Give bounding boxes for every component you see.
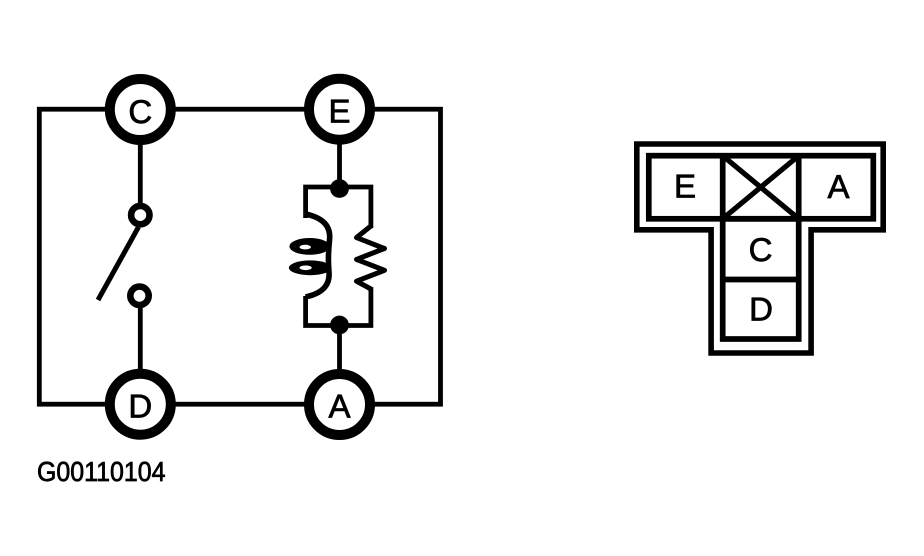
terminal E xyxy=(309,79,370,140)
connector outline (outer T shape, double border) xyxy=(637,144,883,353)
node junction dot top (E branch) xyxy=(330,179,349,198)
svg-text:A: A xyxy=(827,168,849,205)
coil L (relay winding, left branch) xyxy=(289,214,332,297)
pin cell divider (C|D) xyxy=(723,277,799,283)
switch contact circle bottom xyxy=(130,287,148,305)
node junction dot bottom (A branch) xyxy=(330,316,349,335)
svg-text:D: D xyxy=(749,291,773,328)
svg-text:C: C xyxy=(749,231,773,268)
switch contact circle top xyxy=(131,206,149,224)
svg-text:C: C xyxy=(128,93,152,130)
wire from bottom node junction down to terminal A xyxy=(337,325,342,373)
switch blade (open) xyxy=(98,227,139,300)
pin cell divider right (X|A) xyxy=(796,156,802,219)
pin row frame (E / X / A cells) xyxy=(649,156,874,219)
wire from switch down to terminal D xyxy=(138,308,143,373)
wire from terminal C down to switch xyxy=(138,140,143,204)
pin column frame (C / D cells) xyxy=(723,219,799,339)
svg-text:A: A xyxy=(328,388,350,425)
wire from terminal E down to node junction xyxy=(337,140,342,189)
terminal D xyxy=(110,374,171,435)
wire: parallel branch bottom tie xyxy=(306,287,371,326)
blocked cavity X diagonals xyxy=(723,156,799,219)
terminal C xyxy=(110,79,171,140)
wire: left circuit outer rectangle xyxy=(39,109,440,404)
svg-text:E: E xyxy=(328,93,350,130)
pin cell divider left (E|X) xyxy=(720,156,726,219)
terminal A xyxy=(309,374,370,435)
svg-text:D: D xyxy=(128,387,152,424)
svg-text:E: E xyxy=(674,167,696,204)
resistor R (relay shunt, right branch) xyxy=(357,226,385,289)
svg-text:G00110104: G00110104 xyxy=(37,456,166,487)
wire: parallel branch top tie xyxy=(306,187,371,228)
